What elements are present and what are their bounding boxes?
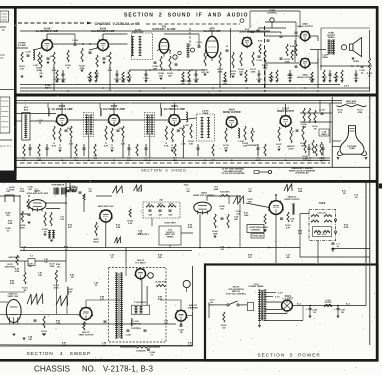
left margin top corner box	[0, 11, 9, 22]
svg-text:6.3 V: 6.3 V	[344, 86, 350, 88]
svg-text:.082: .082	[148, 215, 153, 217]
plate resistor 6CB6	[70, 126, 72, 138]
svg-text:1M: 1M	[57, 266, 60, 268]
power transformer T-101 secondary winding	[264, 290, 266, 321]
svg-text:470K: 470K	[158, 298, 163, 301]
svg-text:680: 680	[286, 257, 290, 259]
yoke resistor row 2b	[324, 220, 332, 222]
left margin small marks mid	[0, 54, 5, 56]
svg-text:27K: 27K	[248, 257, 252, 259]
CRT compartment resistor row2 a	[304, 140, 306, 153]
tube 6AU6	[42, 40, 53, 51]
vert size network dashed box	[143, 202, 180, 218]
vertical integrator caps	[67, 189, 70, 191]
section4/5 gap vertical	[192, 266, 194, 346]
svg-text:.01: .01	[95, 285, 99, 287]
ground sync amp	[44, 233, 47, 235]
svg-text:23MH: 23MH	[322, 57, 328, 59]
svg-text:1M: 1M	[314, 128, 317, 130]
section2 top right wires	[250, 10, 300, 12]
flyback transformer winding 1	[116, 273, 118, 338]
horiz freq note box	[251, 234, 264, 239]
svg-text:R-262 AFC: R-262 AFC	[220, 191, 230, 194]
yoke connector circle 2	[334, 231, 336, 233]
sync output transformer	[49, 231, 51, 239]
resistor R-219	[286, 44, 288, 56]
grid leak resistor R-206	[67, 50, 69, 62]
svg-text:DAMPER: DAMPER	[188, 306, 198, 309]
svg-text:1B: 1B	[341, 312, 344, 314]
test point circle ratio det	[173, 55, 177, 59]
section3 minor component at x=175	[174, 144, 176, 156]
svg-text:1M: 1M	[75, 189, 78, 191]
section3 minor component at x=30	[29, 147, 32, 149]
tube V-206 6AQ5 output 1	[300, 31, 309, 40]
wire 6BQ6 down	[275, 214, 277, 263]
grid resistor R-205	[81, 48, 83, 62]
tube V-210 video amp	[226, 117, 237, 128]
ratio detector transformer T-201 dashed box	[132, 33, 153, 60]
svg-text:8.2K: 8.2K	[188, 345, 193, 347]
wire vert row	[0, 313, 80, 315]
T-201 primary winding	[132, 37, 134, 56]
test point circle 2 ratio det	[191, 48, 195, 52]
vert output tube V-217	[80, 308, 92, 320]
audio takeoff coil L-204	[187, 44, 189, 57]
ground input network	[21, 75, 24, 77]
svg-text:4.7K: 4.7K	[104, 144, 109, 147]
section4 sync takeoff row components	[16, 255, 18, 265]
svg-text:AUDIO OUTPUT: AUDIO OUTPUT	[297, 25, 313, 28]
de-emphasis capacitor C-209	[175, 63, 178, 65]
svg-text:1K: 1K	[67, 67, 70, 69]
svg-text:.047: .047	[158, 214, 163, 217]
section4 horiz osc mesh wires	[207, 195, 240, 197]
yoke horizontal coil 2	[324, 214, 332, 216]
section4 damper wires	[180, 300, 182, 310]
svg-text:4.7K: 4.7K	[100, 298, 105, 301]
svg-text:.005: .005	[61, 81, 66, 83]
tube V-205 6C4 audio driver	[242, 37, 251, 46]
resistor R-272	[24, 272, 26, 284]
right bus wire in section5	[369, 266, 371, 345]
section2 minor component at x=146	[145, 73, 148, 75]
sync amp plate resistor	[21, 211, 23, 222]
svg-text:120K: 120K	[298, 191, 303, 193]
svg-text:CONT VERT: CONT VERT	[164, 223, 176, 225]
ground interstage	[81, 69, 84, 71]
HV cage side connector circle	[183, 280, 190, 287]
wire interstage 1	[53, 43, 97, 45]
coil L-243	[67, 287, 68, 295]
svg-text:.01: .01	[7, 230, 11, 232]
cathode resistor 6AU6	[40, 55, 42, 67]
section4 inner bottom wire	[300, 256, 370, 258]
grid resistor R-213	[232, 52, 234, 68]
wire tone control	[271, 22, 273, 28]
horiz freq control box	[247, 225, 264, 233]
svg-text:100K: 100K	[302, 126, 307, 128]
flyback bottom caps	[127, 329, 130, 331]
vert size control resistor	[337, 105, 367, 107]
wire video IF coupling 1	[67, 119, 108, 121]
ground audio driver	[240, 73, 243, 75]
wire ratio det out	[169, 50, 171, 54]
resistor R-276	[43, 316, 45, 328]
sound takeoff primary	[201, 118, 203, 138]
svg-text:.05: .05	[291, 221, 295, 223]
ground speaker	[352, 57, 355, 59]
svg-text:1M: 1M	[65, 249, 68, 251]
capacitor C-220	[361, 65, 364, 67]
left margin wire stub upper	[0, 89, 14, 91]
wires flyback verticals	[141, 279, 143, 305]
vert size cap 2	[159, 209, 162, 211]
svg-text:.01: .01	[198, 44, 202, 46]
picture tube feed wires	[332, 140, 341, 142]
section4 vert hold wires	[24, 261, 26, 272]
transformer bottom return wire	[265, 320, 303, 322]
audio B+ vertical wire	[230, 28, 232, 78]
picture tube right foot	[361, 151, 367, 155]
svg-text:SECTION 4 SWEEP: SECTION 4 SWEEP	[27, 351, 92, 357]
section3 minor component at x=47	[46, 147, 49, 149]
left margin dashes lower	[0, 145, 11, 147]
svg-text:47: 47	[145, 79, 147, 82]
section2 top bus wire	[20, 30, 270, 32]
horiz output cathode resistor	[264, 214, 266, 224]
integrator comb block 1	[53, 188, 55, 195]
wire yoke feed	[300, 213, 309, 215]
vert output transformer box	[159, 226, 181, 245]
section4 phase det diode box	[28, 259, 35, 266]
svg-text:TRANS: TRANS	[328, 36, 336, 39]
tube V-219 6W4 damper	[176, 310, 187, 321]
svg-text:R-64: R-64	[258, 40, 263, 43]
svg-text:.039: .039	[168, 215, 173, 217]
svg-text:R-236 470K: R-236 470K	[156, 281, 167, 284]
svg-text:30MH: 30MH	[321, 134, 327, 136]
svg-text:1.5K: 1.5K	[239, 71, 244, 73]
svg-text:CONTROL: CONTROL	[131, 328, 142, 330]
svg-text:SPKR: SPKR	[353, 61, 359, 63]
left margin cut-off note box	[0, 97, 10, 133]
plate resistor 6CB6	[122, 126, 124, 138]
svg-text:8.2K: 8.2K	[127, 79, 132, 81]
wire plate 6AU6	[102, 34, 104, 40]
picture tube left foot	[337, 151, 343, 155]
section2 heater bus wire	[20, 84, 340, 86]
tube V-203 6T8 ratio detector	[159, 39, 168, 54]
section3 top bus wire 2	[16, 102, 343, 104]
svg-text:3.3K: 3.3K	[127, 160, 132, 162]
svg-text:6AU6: 6AU6	[229, 108, 236, 111]
ground vert output	[43, 333, 46, 335]
wire plate 6AU6	[46, 34, 48, 40]
coupling capacitor C-217	[280, 35, 283, 37]
section4 sync small box A	[67, 187, 71, 192]
wire right bus down	[369, 30, 371, 58]
resistor R-222	[368, 58, 370, 70]
section2 minor component at x=330	[329, 73, 332, 75]
svg-text:470K: 470K	[20, 226, 25, 229]
section3 minor component at x=95	[94, 144, 96, 156]
svg-text:1M: 1M	[71, 277, 74, 279]
divider section3/4 rule	[0, 180, 379, 183]
svg-text:VERT OUTPUT: VERT OUTPUT	[78, 334, 94, 336]
section3 minor component at x=258	[257, 147, 260, 149]
svg-text:AUDIO: AUDIO	[45, 87, 52, 90]
phono jack symbol	[254, 171, 259, 174]
coupling capacitor C-218	[280, 57, 283, 59]
svg-text:680: 680	[234, 219, 238, 221]
ground C-301	[337, 315, 340, 317]
svg-text:470K: 470K	[358, 111, 363, 114]
horiz output screen resistor	[287, 212, 289, 222]
sound takeoff secondary	[208, 118, 210, 138]
svg-text:+: +	[334, 308, 336, 311]
svg-text:NO.: NO.	[82, 365, 96, 374]
wire boost	[120, 346, 137, 348]
resistor R-236 470K	[156, 284, 165, 286]
svg-text:RATIO DET - AF AMP: RATIO DET - AF AMP	[153, 28, 176, 31]
ground 6CB6	[111, 149, 114, 151]
svg-text:NOISE CLIPPER: NOISE CLIPPER	[223, 112, 241, 114]
section2 chassis dashed boundary	[18, 22, 86, 24]
coupling capacitor C-204	[74, 43, 77, 45]
section4 inner right border	[365, 183, 367, 264]
tube V-218 1B3 HV rectifier	[136, 269, 146, 279]
deflection yoke dash-dot box	[309, 209, 336, 240]
svg-text:27K: 27K	[6, 215, 10, 217]
svg-text:20: 20	[361, 72, 364, 74]
AC plug symbol	[209, 304, 214, 306]
svg-text:22K: 22K	[159, 75, 163, 77]
load resistor R-209	[169, 56, 171, 70]
svg-text:.02: .02	[258, 81, 261, 83]
screen capacitor 6CB6	[117, 129, 120, 131]
vert waveform 1	[27, 294, 43, 304]
section3 chassis dashed boundary	[20, 162, 330, 164]
wire plate 6CB6 to bus	[173, 103, 175, 115]
yoke bypass caps	[331, 242, 334, 244]
svg-text:2.2K: 2.2K	[224, 147, 229, 149]
section3 right vertical wires	[329, 103, 331, 143]
svg-text:2nd SOUND IF AMP: 2nd SOUND IF AMP	[91, 30, 115, 33]
svg-text:56K: 56K	[158, 257, 162, 259]
section3 minor component at x=309	[308, 147, 311, 149]
sawtooth waveform horiz osc	[233, 196, 244, 204]
svg-text:10K: 10K	[220, 208, 224, 210]
wire vert row 2	[0, 323, 103, 325]
section4 long vertical wires	[65, 196, 67, 248]
svg-text:SYNC AMP SYNC SEP: SYNC AMP SYNC SEP	[26, 192, 48, 195]
cathode resistor 6AU6	[96, 55, 98, 67]
wire splitter top	[265, 35, 299, 37]
section3 minor component at x=265	[264, 144, 266, 156]
svg-text:4.7K: 4.7K	[22, 159, 27, 162]
svg-text:19C2: 19C2	[184, 185, 189, 187]
section3 minor component at x=84	[83, 147, 86, 149]
svg-text:1M: 1M	[343, 193, 346, 195]
ratio det bottom junction dots	[149, 69, 151, 71]
delay line coil	[5, 195, 14, 202]
cathode resistor R-220	[295, 44, 297, 56]
svg-text:CONTRAST: CONTRAST	[247, 144, 259, 147]
wire B+ bus up right	[365, 266, 367, 306]
svg-text:TRANS: TRANS	[167, 235, 175, 238]
divider section2/3 rule	[14, 94, 379, 97]
plate load R-217	[252, 52, 254, 66]
section3 minor component at x=76	[75, 144, 77, 156]
CRT compartment column resistor 3	[314, 110, 316, 123]
transformer tap rectifier filament	[265, 313, 287, 315]
svg-text:VERT COILS: VERT COILS	[317, 234, 326, 236]
svg-text:YOKE: YOKE	[319, 203, 326, 205]
svg-text:4.7K: 4.7K	[52, 144, 57, 147]
audio coupling capacitor C-210	[198, 45, 201, 47]
CRT compartment cap C-150	[321, 112, 324, 114]
svg-text:470K: 470K	[80, 67, 85, 70]
filter choke L-300	[324, 305, 332, 307]
left edge black blob	[0, 171, 17, 181]
wire output plates	[317, 36, 319, 41]
primary fuse box	[247, 303, 253, 311]
extra sawtooth near vert size box	[134, 185, 142, 191]
yoke connector circle 1	[334, 219, 336, 221]
svg-text:B+ 2: B+ 2	[297, 303, 302, 305]
section2 minor component at x=259	[258, 73, 261, 75]
svg-text:330: 330	[187, 83, 190, 85]
vert size resistor 2	[157, 205, 165, 207]
svg-text:L.V. RECT: L.V. RECT	[283, 299, 294, 301]
svg-text:IF 4.5MC: IF 4.5MC	[18, 44, 27, 47]
vert size cap 1	[149, 209, 152, 211]
grid resistor 6CB6	[53, 126, 55, 140]
damper cathode cap	[180, 324, 183, 326]
wire audio B+ drops	[317, 50, 319, 89]
svg-text:120K: 120K	[56, 323, 61, 325]
section2 minor component at x=246	[245, 70, 247, 80]
tube V-212 12AX7 sync amp	[29, 200, 46, 210]
resistor R-201	[21, 52, 23, 62]
svg-text:270: 270	[310, 81, 313, 83]
svg-text:.05: .05	[355, 197, 359, 199]
sound takeoff transformer dashed box	[197, 114, 215, 141]
svg-text:6.3 V: 6.3 V	[275, 297, 280, 299]
sync input wire	[0, 195, 20, 197]
svg-text:150: 150	[39, 73, 43, 75]
neutralizing capacitor C-205	[89, 51, 92, 53]
section3 bottom rule	[16, 166, 371, 168]
cathode resistor 6CB6	[171, 128, 173, 142]
svg-text:IS INSTALLED: IS INSTALLED	[295, 172, 309, 175]
svg-text:CONTROL: CONTROL	[251, 229, 261, 231]
tube V-215 6BQ6 horiz output	[269, 201, 283, 215]
section2 minor component at x=196	[195, 73, 198, 75]
border top rule	[0, 6, 379, 9]
capacitor C-240	[104, 320, 107, 322]
T-201 secondary winding	[139, 37, 141, 56]
CRT compartment bus wires	[300, 112, 332, 114]
svg-text:CONTROL: CONTROL	[267, 13, 278, 15]
video output plate cap wire	[285, 104, 287, 116]
section3 bottom bus wire 2	[16, 159, 331, 161]
svg-text:560K: 560K	[50, 266, 55, 268]
section3 input IF coil box	[22, 113, 30, 141]
section2 chassis dashed boundary continuation	[146, 23, 240, 25]
svg-text:INTEGRATOR: INTEGRATOR	[52, 184, 65, 187]
svg-text:1K: 1K	[278, 146, 281, 148]
svg-text:1M: 1M	[24, 290, 27, 292]
picture tube compartment left rule	[331, 97, 333, 167]
svg-text:470K: 470K	[20, 190, 25, 193]
section4 bottom-left wires	[0, 291, 25, 293]
tube V-216 6SN7 vert osc output	[6, 300, 21, 323]
section3 interstage IF transformer 2	[145, 113, 155, 137]
power transformer core	[261, 290, 263, 321]
section2 minor component at x=312	[311, 72, 313, 80]
output transformer T-202	[328, 40, 330, 54]
section3 minor component at x=213	[212, 144, 214, 156]
peaking coil before 6CB6	[100, 108, 101, 116]
flyback core	[118, 273, 120, 338]
wire vert trans to tube	[181, 232, 193, 234]
CRT compartment resistor row2 b	[312, 140, 314, 153]
svg-text:150: 150	[110, 147, 114, 149]
section3 minor component at x=323	[322, 147, 325, 149]
section2 minor component at x=324	[323, 70, 325, 80]
svg-text:4.7K: 4.7K	[286, 226, 291, 229]
video amp plate resistor	[244, 126, 246, 140]
screen capacitor 6CB6	[177, 129, 180, 131]
svg-text:470K: 470K	[344, 226, 349, 229]
svg-text:HOLD: HOLD	[93, 241, 99, 243]
svg-text:C-216: C-216	[256, 60, 262, 62]
speaker plug circle	[341, 45, 346, 50]
width control box T-102	[131, 305, 149, 314]
sawtooth waveform sync	[113, 186, 123, 193]
power transformer T-101 primary winding	[259, 290, 261, 321]
yoke resistor row 2a	[311, 220, 319, 222]
section2 minor component at x=356	[355, 73, 358, 75]
horiz lin control coil	[131, 319, 132, 327]
plate resistor 6CB6	[182, 126, 184, 138]
filter capacitor C-300	[309, 308, 312, 310]
svg-text:150: 150	[58, 147, 62, 149]
svg-text:.047: .047	[186, 190, 191, 193]
DC restorer resistor	[302, 126, 304, 140]
svg-text:3.9K: 3.9K	[189, 143, 194, 145]
wire 6AU6 to B+	[53, 64, 55, 88]
picture tube neck cap	[349, 125, 356, 127]
picture tube bell	[340, 126, 364, 155]
section2 minor component at x=225	[224, 72, 226, 80]
section4 sync mesh wires	[46, 202, 66, 204]
ground ratio det	[160, 77, 163, 79]
svg-text:27K: 27K	[138, 191, 142, 193]
cathode resistor R-216	[240, 52, 242, 66]
svg-text:C-242: C-242	[125, 334, 131, 337]
svg-text:POWER TRANS: POWER TRANS	[249, 285, 265, 288]
svg-text:470K: 470K	[10, 282, 15, 285]
wire splitter bottom	[265, 62, 299, 64]
fuse resistor R-301	[223, 312, 225, 322]
wire sync to vert osc	[96, 195, 112, 197]
svg-text:VOL 1M: VOL 1M	[201, 72, 209, 74]
yoke vert coil 1	[314, 230, 321, 232]
svg-text:B+ 1: B+ 1	[346, 303, 351, 305]
